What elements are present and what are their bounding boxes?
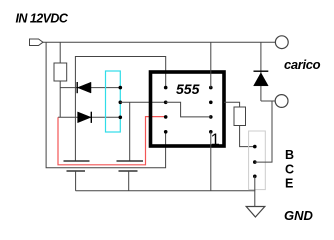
capacitor C1 top plate — [64, 160, 90, 162]
wire left outer loop to 555 pin (bottom) — [46, 42, 166, 168]
connector tag IN — [30, 39, 44, 46]
diode D3 (points up) — [254, 70, 269, 72]
capacitor C2 top lead — [129, 102, 131, 161]
wire inner loop top (pin7 to C1) — [75, 57, 165, 162]
svg-text:C: C — [285, 163, 294, 177]
wire 555 out to R2 — [224, 102, 240, 107]
svg-text:IN 12VDC: IN 12VDC — [16, 12, 69, 26]
resistor R1 leads — [59, 42, 61, 63]
wire pin bottom-right to ground rail — [210, 132, 212, 191]
red wire — [58, 117, 166, 165]
node dot C — [119, 116, 123, 120]
pin 555 left col — [164, 86, 168, 90]
wire diode D2 row — [58, 116, 120, 118]
wire collector riser — [255, 101, 272, 162]
capacitor C2 bottom lead — [128, 171, 130, 191]
capacitor C2 bottom plate — [119, 170, 138, 172]
pin C dot — [253, 160, 257, 164]
diode D2 (points right) — [90, 112, 92, 123]
terminal circle 2 — [275, 95, 288, 108]
transistor Q1 body — [249, 131, 266, 190]
pin E dot — [253, 175, 257, 179]
wire diode D1 row — [60, 87, 120, 89]
svg-text:E: E — [285, 176, 293, 190]
capacitor C1 bottom lead — [75, 171, 77, 191]
pin 555 right col — [209, 86, 213, 90]
node dot A — [119, 86, 123, 90]
wire row2 to 555 — [120, 101, 165, 103]
wire internal step — [166, 102, 211, 117]
svg-text:carico: carico — [284, 57, 321, 72]
cyan rectangle — [106, 71, 121, 132]
op-amp U1 555 box — [151, 72, 225, 146]
wire diode D3 column — [260, 42, 262, 101]
capacitor C2 top plate — [117, 160, 144, 162]
wire emitter down — [254, 176, 256, 206]
resistor R2 — [234, 107, 246, 126]
ground — [246, 207, 265, 218]
svg-text:GND: GND — [284, 208, 314, 223]
pin B dot — [253, 145, 257, 149]
wire R2 to base — [240, 126, 255, 147]
svg-text:1: 1 — [211, 131, 220, 149]
terminal circle 1 — [275, 36, 288, 49]
diode D1 (points left) — [76, 82, 78, 93]
svg-text:B: B — [285, 148, 294, 162]
wire bottom ground rail — [76, 190, 256, 192]
resistor R1 — [54, 63, 67, 81]
capacitor C1 bottom plate — [67, 170, 86, 172]
wire pin top-right to rail — [210, 42, 212, 87]
node dot B — [119, 101, 123, 105]
wire to terminal 2 — [261, 100, 275, 102]
svg-text:555: 555 — [176, 81, 200, 97]
wire top rail — [43, 41, 275, 43]
